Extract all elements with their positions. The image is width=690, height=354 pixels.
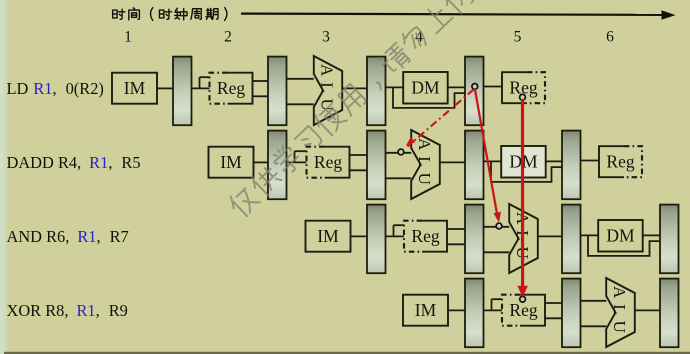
- header label: time (clock cycles): [113, 8, 227, 21]
- IM box (instruction memory) row 4: [403, 295, 448, 326]
- wire ALU lower input row 3: [484, 251, 510, 253]
- IM box (instruction memory) row 3: [306, 221, 351, 252]
- svg-text:DADD R4,R1,R5: DADD R4,R1,R5: [7, 153, 141, 172]
- svg-text:Reg: Reg: [411, 226, 439, 246]
- Reg box register-file read row 2: [307, 147, 350, 178]
- svg-text:IM: IM: [317, 226, 339, 246]
- wire ALU output row 2: [440, 161, 465, 163]
- pipeline register IF/ID row 2: [268, 131, 287, 200]
- pipeline register EX/MEM row 2: [465, 131, 484, 200]
- DM box (data memory) row 2: [501, 146, 546, 178]
- time axis arrow: [241, 10, 676, 19]
- wire DM output row 3: [643, 234, 660, 236]
- wire ALU upper input row 1: [287, 78, 314, 80]
- node on write-back Reg of LD: [520, 94, 526, 100]
- svg-text:5: 5: [514, 29, 522, 46]
- pipeline register MEM/WB row 2: [562, 131, 581, 200]
- DM box (data memory) row 3: [598, 220, 643, 252]
- wire Reg output B row 4: [545, 317, 562, 319]
- wire DM bypass around data memory row 3: [588, 235, 660, 256]
- wire DM input row 1: [386, 86, 404, 88]
- wire stub fork row 2: [294, 151, 296, 162]
- pipeline register EX/MEM row 4: [660, 279, 679, 348]
- wire ALU lower input row 4: [581, 325, 607, 327]
- wire upper Reg input row 2: [295, 150, 307, 152]
- wire IM to IF/ID register row 3: [351, 235, 368, 237]
- svg-text:ALU: ALU: [415, 138, 434, 191]
- pipeline register ID/EX row 2: [367, 131, 386, 200]
- svg-text:Reg: Reg: [217, 78, 245, 98]
- svg-text:AND R6,R1,R7: AND R6,R1,R7: [7, 227, 129, 246]
- wire DM output row 1: [448, 86, 465, 88]
- DM box (data memory) row 1: [403, 72, 448, 104]
- svg-text:Reg: Reg: [314, 152, 342, 172]
- wire Reg output B row 2: [350, 169, 368, 171]
- Reg box register-file read row 4: [502, 295, 545, 326]
- pipeline register MEM/WB row 1: [465, 57, 484, 126]
- wire Reg output B row 3: [447, 243, 465, 245]
- forwarding path LD to AND ALU input: [475, 89, 498, 216]
- svg-text:IM: IM: [124, 78, 146, 98]
- ALU row 2: [411, 130, 440, 199]
- node ALU upper input of AND: [496, 223, 502, 229]
- ALU row 3: [509, 204, 538, 273]
- wire pipeline reg to Reg mid input row 4: [484, 309, 503, 311]
- forwarding path through register file LD to XOR: [521, 99, 524, 288]
- svg-text:XOR R8,R1,R9: XOR R8,R1,R9: [7, 301, 128, 320]
- svg-text:Reg: Reg: [509, 300, 537, 320]
- wire Reg output A row 1: [253, 80, 269, 82]
- pipeline register ID/EX row 1: [268, 57, 287, 126]
- node ALU upper input of DADD: [398, 149, 404, 155]
- svg-text:2: 2: [224, 29, 232, 46]
- svg-text:LDR1,0(R2): LDR1,0(R2): [7, 79, 104, 98]
- wire Reg output A row 3: [447, 228, 465, 230]
- bottom page edge line: [4, 352, 690, 354]
- pipeline register IF/ID row 1: [173, 57, 192, 126]
- pipeline register MEM/WB row 3: [660, 205, 679, 274]
- wire upper Reg input row 3: [394, 224, 405, 226]
- Reg box register-file read row 3: [404, 221, 447, 252]
- svg-text:Reg: Reg: [606, 152, 634, 172]
- wire pipeline reg to Reg mid input row 3: [386, 235, 405, 237]
- svg-text:1: 1: [124, 29, 132, 46]
- IM box (instruction memory) row 1: [112, 73, 157, 104]
- wire ALU lower input row 1: [287, 103, 314, 105]
- svg-text:DM: DM: [411, 78, 440, 98]
- watermark: for study use only, do not upload (diagonal): [226, 0, 477, 219]
- Reg box register-file write row 2: [599, 146, 642, 177]
- svg-text:IM: IM: [415, 300, 437, 320]
- svg-text:6: 6: [606, 29, 614, 46]
- arrowhead to AND ALU input: [494, 212, 501, 223]
- pipeline register IF/ID row 4: [465, 279, 484, 348]
- wire to write-back Reg row 2: [581, 160, 600, 162]
- wire DM input row 3: [581, 234, 599, 236]
- wire DM input row 2: [484, 160, 502, 162]
- wire pipeline reg to Reg mid input row 1: [192, 87, 210, 89]
- wire IM to IF/ID register row 2: [254, 161, 269, 163]
- wire ALU output row 1: [342, 87, 367, 89]
- forwarding path (dash-dot, impossible in time) LD to DADD ALU: [408, 90, 474, 147]
- wire upper Reg input row 1: [200, 76, 210, 78]
- wire IM to IF/ID register row 4: [448, 309, 465, 311]
- svg-text:ALU: ALU: [610, 286, 629, 339]
- wire DM output row 2: [546, 160, 562, 162]
- wire ALU upper input row 3: [484, 226, 510, 228]
- Reg box register-file write row 1: [502, 72, 545, 103]
- pipeline register EX/MEM row 1: [367, 57, 386, 126]
- wire Reg output B row 1: [253, 95, 269, 97]
- IM box (instruction memory) row 2: [209, 147, 254, 178]
- arrowhead to XOR Reg read: [517, 286, 528, 298]
- wire DM bypass around data memory row 2: [491, 161, 562, 182]
- Reg box register-file read row 1: [210, 73, 253, 104]
- wire stub fork row 1: [199, 77, 201, 88]
- wire DM bypass around data memory row 1: [393, 87, 465, 108]
- node on Reg read of XOR: [520, 296, 526, 302]
- pipeline register ID/EX row 3: [465, 205, 484, 274]
- wire ALU output row 3: [538, 235, 562, 237]
- wire Reg output A row 2: [350, 154, 368, 156]
- ALU row 4: [606, 278, 635, 347]
- wire ALU output row 4: [635, 309, 660, 311]
- node MEM/WB output of LD (forward source): [472, 84, 478, 90]
- svg-text:DM: DM: [606, 226, 635, 246]
- wire to write-back Reg row 1: [484, 86, 503, 88]
- wire ALU lower input row 2: [386, 177, 412, 179]
- ALU row 1: [314, 56, 342, 125]
- wire stub fork row 4: [491, 299, 493, 310]
- svg-text:IM: IM: [220, 152, 242, 172]
- pipeline register EX/MEM row 3: [562, 205, 581, 274]
- wire ALU upper input row 4: [581, 300, 607, 302]
- svg-text:3: 3: [322, 29, 330, 46]
- pipeline register ID/EX row 4: [562, 279, 581, 348]
- arrowhead to DADD ALU input: [406, 137, 415, 146]
- clock cycle numbers 1-6: [124, 29, 614, 46]
- left page edge strip: [0, 0, 5, 354]
- wire stub fork row 3: [393, 225, 395, 236]
- wire upper Reg input row 4: [492, 298, 503, 300]
- wire ALU upper input row 2: [386, 152, 412, 154]
- wire Reg output A row 4: [545, 302, 562, 304]
- wire pipeline reg to Reg mid input row 2: [287, 161, 307, 163]
- wire IM to IF/ID register row 1: [157, 87, 173, 89]
- pipeline register IF/ID row 3: [367, 205, 386, 274]
